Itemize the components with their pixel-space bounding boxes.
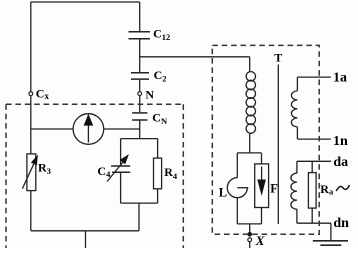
label tilde (336, 185, 349, 191)
wire dn horizontal (297, 222, 331, 224)
wire current source left (31, 128, 73, 130)
wire winding1 spine bottom (296, 127, 298, 139)
wire left vertical lower (30, 96, 32, 231)
inductor primary winding T (246, 72, 255, 134)
wire X feed (249, 224, 251, 232)
wire X down (249, 242, 251, 248)
svg-text:1n: 1n (333, 134, 348, 149)
capacitor C2 (131, 73, 149, 79)
wire main vertical segment 5 (139, 120, 141, 138)
arrester F box (255, 164, 269, 208)
current source G circle (73, 114, 104, 145)
wire L branch lower (236, 198, 238, 224)
svg-text:T: T (274, 51, 282, 65)
resistor R4 (154, 158, 162, 189)
inductor winding 1a-1n (291, 91, 297, 127)
node X terminal (248, 238, 252, 242)
resistor R3 (27, 154, 36, 191)
svg-text:C4: C4 (97, 164, 111, 179)
wire top horizontal (31, 1, 140, 3)
wire R4 branch lower (157, 189, 159, 203)
inductor winding da-dn (291, 173, 297, 209)
wire C4 branch lower (120, 173, 122, 203)
capacitor CN (132, 113, 147, 120)
svg-text:CN: CN (152, 110, 168, 126)
wire C4R4 box bottom bar (121, 202, 158, 204)
svg-text:Ra: Ra (320, 182, 334, 197)
wire winding1 spine top (296, 77, 298, 91)
current source arrow (87, 125, 89, 143)
wire winding2 spine bottom (296, 209, 298, 223)
wire F branch upper (261, 153, 263, 164)
svg-text:dn: dn (333, 216, 349, 231)
wire ground feed (330, 223, 332, 241)
capacitor C4 plates (111, 166, 130, 172)
svg-text:L: L (219, 186, 227, 200)
wire current source right (104, 128, 140, 130)
dashed box transformer (right) (212, 45, 319, 234)
wire main vertical segment 3 (139, 80, 141, 92)
svg-text:Cx: Cx (36, 86, 50, 101)
svg-text:1a: 1a (333, 71, 347, 86)
wire main vertical segment 1 (139, 2, 141, 31)
capacitor C12 (129, 32, 151, 39)
junction dot X (247, 232, 252, 237)
svg-text:R4: R4 (164, 165, 178, 181)
svg-text:C12: C12 (153, 27, 170, 43)
resistor Ra (308, 173, 316, 209)
svg-text:C2: C2 (154, 68, 167, 84)
svg-text:R3: R3 (38, 160, 51, 176)
wire L branch upper (236, 153, 238, 178)
arrester F arrow (261, 167, 263, 181)
wire LF top bar (237, 152, 261, 154)
wire primary coil bottom (249, 133, 251, 153)
wire R4 branch upper (157, 139, 159, 159)
dashed box bridge (left) (6, 104, 183, 248)
wire winding2 spine top (296, 161, 298, 173)
wire junction horizontal to transformer (140, 56, 250, 58)
wire da horizontal (297, 160, 331, 162)
wire Ra branch upper (311, 161, 313, 172)
wire box feed down (138, 203, 140, 231)
svg-text:F: F (270, 182, 278, 196)
wire C4 branch upper (120, 139, 122, 166)
arrester L symbol (227, 178, 247, 198)
wire C4R4 box top bar (121, 138, 158, 140)
wire F branch lower (261, 208, 263, 224)
wire primary coil feed (249, 57, 251, 72)
ground (313, 241, 348, 245)
wire bottom horizontal (31, 230, 139, 232)
wire 1n horizontal (297, 138, 330, 140)
wire 1a horizontal (297, 76, 330, 78)
svg-text:N: N (145, 87, 154, 101)
resistor R3 arrow (22, 164, 33, 189)
wire main vertical segment 4 (139, 96, 141, 113)
wire left vertical upper (30, 2, 32, 92)
wire bottom stub down (85, 231, 87, 248)
transformer core line T (277, 65, 279, 225)
wire Ra branch lower (311, 208, 313, 223)
svg-text:da: da (333, 155, 348, 170)
capacitor C4 arrow (107, 162, 123, 182)
wire main vertical segment 2 (139, 39, 141, 72)
svg-text:X: X (255, 233, 265, 248)
node Cx (29, 92, 33, 96)
wire LF bottom bar (237, 223, 261, 225)
node N (138, 92, 142, 96)
